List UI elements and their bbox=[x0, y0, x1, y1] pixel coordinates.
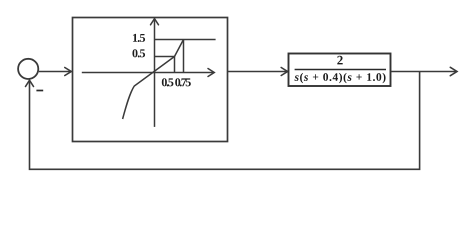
label 0.5 (x-axis) bbox=[162, 78, 174, 86]
graph y-axis bbox=[151, 19, 159, 127]
minus sign bbox=[36, 90, 43, 92]
wire: output bbox=[391, 67, 457, 75]
label 1.5 (y-axis) bbox=[133, 34, 145, 42]
helper line y=0.5 bbox=[155, 56, 175, 58]
summing junction bbox=[18, 59, 38, 79]
helper vertical line x=0.5 bbox=[174, 57, 176, 73]
nonlinearity curve bbox=[123, 40, 184, 120]
graph x-axis bbox=[82, 69, 215, 77]
wire: summing junction to nonlinearity block bbox=[39, 68, 72, 76]
numerator 2 bbox=[337, 56, 342, 65]
helper vertical line x=0.75 bbox=[183, 40, 185, 73]
label 0.5 (y-axis) bbox=[132, 49, 145, 57]
nonlinearity block bbox=[73, 18, 228, 142]
fraction bar bbox=[295, 69, 386, 71]
saturation level line y=1.5 bbox=[155, 39, 216, 41]
label 0.75 (x-axis) bbox=[175, 78, 191, 86]
transfer function block U1 bbox=[289, 54, 391, 87]
wire: nonlinearity block to transfer function block bbox=[228, 68, 288, 76]
wire: feedback path down, left and up into summing junction bbox=[26, 72, 420, 170]
denominator s(s+0.4)(s+1.0) bbox=[294, 73, 385, 83]
